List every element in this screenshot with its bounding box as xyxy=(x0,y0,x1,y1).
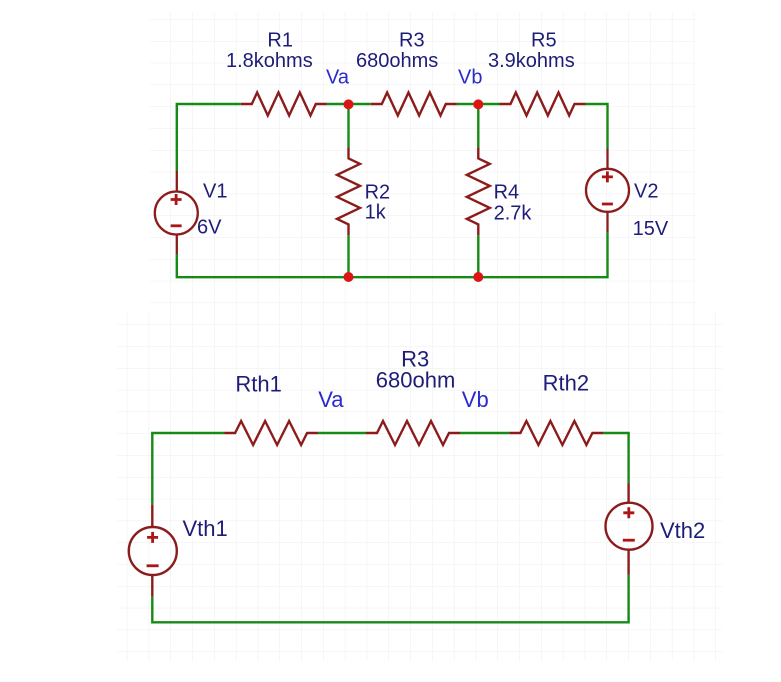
voltage source V1 xyxy=(155,171,198,254)
resistor Rth1 xyxy=(224,421,318,445)
wire R4 stem bottom xyxy=(477,235,479,277)
wire Vb segment (R3 to R5) xyxy=(457,103,500,105)
resistor R1 xyxy=(241,93,327,116)
wire bottom-circuit top-left (Vth1 top to Rth1) xyxy=(152,433,224,504)
svg-text:680ohms: 680ohms xyxy=(356,50,438,72)
resistor R5 xyxy=(500,93,586,116)
svg-text:Va: Va xyxy=(326,67,350,89)
wire top-right segment (R5 to V2 top) xyxy=(586,104,608,149)
resistor Rth2 xyxy=(509,421,603,445)
wire R4 stem top xyxy=(477,104,479,147)
resistor R4 xyxy=(467,147,490,235)
node Vb dot xyxy=(473,99,483,109)
resistor R3 xyxy=(371,93,457,116)
svg-text:15V: 15V xyxy=(633,218,669,240)
svg-text:680ohm: 680ohm xyxy=(376,367,456,392)
node bottom-right junction dot xyxy=(473,272,483,282)
resistor R3 (bottom circuit) xyxy=(366,421,460,445)
svg-text:V2: V2 xyxy=(634,181,658,203)
svg-text:R5: R5 xyxy=(531,30,557,52)
voltage source V2 xyxy=(586,149,629,233)
node Va dot xyxy=(344,99,354,109)
svg-text:Vth2: Vth2 xyxy=(660,518,705,543)
wire bottom-circuit bottom rail xyxy=(152,575,628,623)
wire Va segment (R1 to R3) xyxy=(327,103,371,105)
wire bottom rail xyxy=(177,232,608,277)
svg-text:2.7k: 2.7k xyxy=(494,203,533,225)
svg-text:6V: 6V xyxy=(197,217,222,239)
svg-text:V1: V1 xyxy=(203,181,227,203)
wire bottom-circuit top-right (Rth2 to Vth2 top) xyxy=(603,433,628,483)
svg-text:R3: R3 xyxy=(399,30,425,52)
wire bottom-circuit Vb segment (R3 to Rth2) xyxy=(460,432,509,434)
voltage source Vth1 xyxy=(129,504,177,596)
svg-text:R1: R1 xyxy=(267,30,293,52)
resistor R2 xyxy=(337,147,360,235)
wire top-left segment (V1 top to R1) xyxy=(177,104,241,171)
node bottom-left junction dot xyxy=(344,272,354,282)
svg-text:Vth1: Vth1 xyxy=(183,516,228,541)
wire R2 stem top xyxy=(347,104,349,147)
svg-text:Rth2: Rth2 xyxy=(543,371,589,396)
svg-text:3.9kohms: 3.9kohms xyxy=(488,50,575,72)
voltage source Vth2 xyxy=(606,483,653,574)
svg-text:R2: R2 xyxy=(365,181,391,203)
svg-text:Vb: Vb xyxy=(462,387,489,412)
wire R2 stem bottom xyxy=(347,235,349,277)
svg-text:Va: Va xyxy=(318,387,344,412)
svg-text:1.8kohms: 1.8kohms xyxy=(226,50,313,72)
svg-text:1k: 1k xyxy=(365,202,387,224)
svg-text:R4: R4 xyxy=(494,182,520,204)
svg-text:Rth1: Rth1 xyxy=(235,371,281,396)
svg-text:Vb: Vb xyxy=(458,67,482,89)
wire bottom-circuit Va segment (Rth1 to R3) xyxy=(318,432,366,434)
